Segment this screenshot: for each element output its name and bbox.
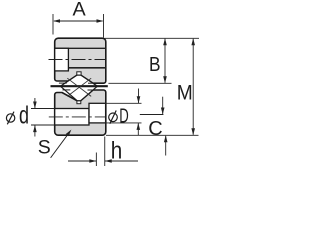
upper-left raceway shoulder line (behind roller)	[59, 82, 67, 84]
upper bore centerline	[49, 59, 106, 61]
crossed roller end face top square	[77, 72, 81, 75]
roller axis thick line	[51, 85, 108, 87]
dimension M vertical line with arrows	[192, 39, 194, 135]
h extension line left	[95, 153, 97, 167]
d extension line top	[31, 108, 55, 110]
dimension A extension line right	[103, 14, 105, 38]
D extension line top	[105, 102, 142, 104]
svg-text:C: C	[148, 118, 162, 140]
dimension C bottom arrow	[165, 136, 167, 156]
S leader line with arrow	[51, 132, 70, 158]
dimension B vertical line with arrows	[164, 39, 166, 83]
dimension C top arrow	[162, 97, 164, 115]
roller diamond	[60, 75, 97, 101]
dimension d top arrow	[34, 98, 36, 109]
lower rail block body	[55, 90, 106, 135]
top extension line (top face)	[105, 37, 200, 39]
lower-left raceway shoulder line (behind roller)	[62, 89, 70, 91]
roller contact X line 2	[67, 78, 91, 96]
svg-text:M: M	[177, 81, 193, 104]
svg-text:A: A	[73, 0, 87, 21]
svg-text:h: h	[111, 138, 123, 165]
upper-right raceway shoulder line (behind roller)	[88, 82, 93, 84]
crossed roller end face bottom square	[77, 101, 81, 104]
bottom extension line (bottom face)	[106, 134, 199, 136]
upper rail bore bottom (shoulder) thick line	[68, 67, 105, 69]
dimension D bottom arrow	[137, 123, 139, 135]
label phi of D	[109, 113, 118, 122]
dimension d bottom arrow	[34, 125, 36, 136]
d extension line bottom	[31, 124, 55, 126]
svg-text:B: B	[149, 54, 161, 76]
h dimension left arrow	[68, 160, 96, 162]
label phi of d	[6, 114, 14, 122]
dimension A extension line left	[52, 14, 54, 35]
upper rail bore top line	[55, 47, 106, 49]
lower bore centerline	[49, 116, 106, 118]
svg-text:D: D	[119, 105, 129, 127]
C extension line (lower bore axis)	[140, 114, 164, 116]
dimension D top arrow	[138, 89, 140, 104]
dimension A line with arrows	[54, 20, 103, 22]
upper rail block body	[55, 38, 106, 83]
h extension line right	[104, 137, 106, 167]
B extension line (roller axis)	[108, 82, 171, 84]
lower rail bore (white band)	[55, 109, 89, 126]
svg-text:d: d	[19, 102, 29, 130]
svg-text:S: S	[38, 137, 51, 159]
lower rail counterbore rect (white)	[89, 103, 106, 123]
roller contact X line 1	[67, 78, 91, 96]
h dimension right arrow	[105, 160, 138, 162]
upper rail counterbore (white rect)	[55, 48, 69, 71]
lower-right raceway shoulder line (behind roller)	[88, 89, 94, 91]
D extension line bottom	[105, 122, 142, 124]
